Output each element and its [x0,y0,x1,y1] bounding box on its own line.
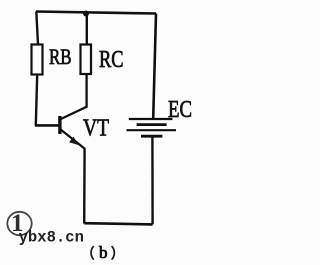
svg-text:EC: EC [168,96,192,123]
svg-text:RB: RB [49,44,72,69]
svg-text:b: b [99,243,108,262]
svg-text:RC: RC [99,47,124,73]
svg-text:ybx8.cn: ybx8.cn [19,228,84,246]
svg-text:VT: VT [83,115,109,142]
